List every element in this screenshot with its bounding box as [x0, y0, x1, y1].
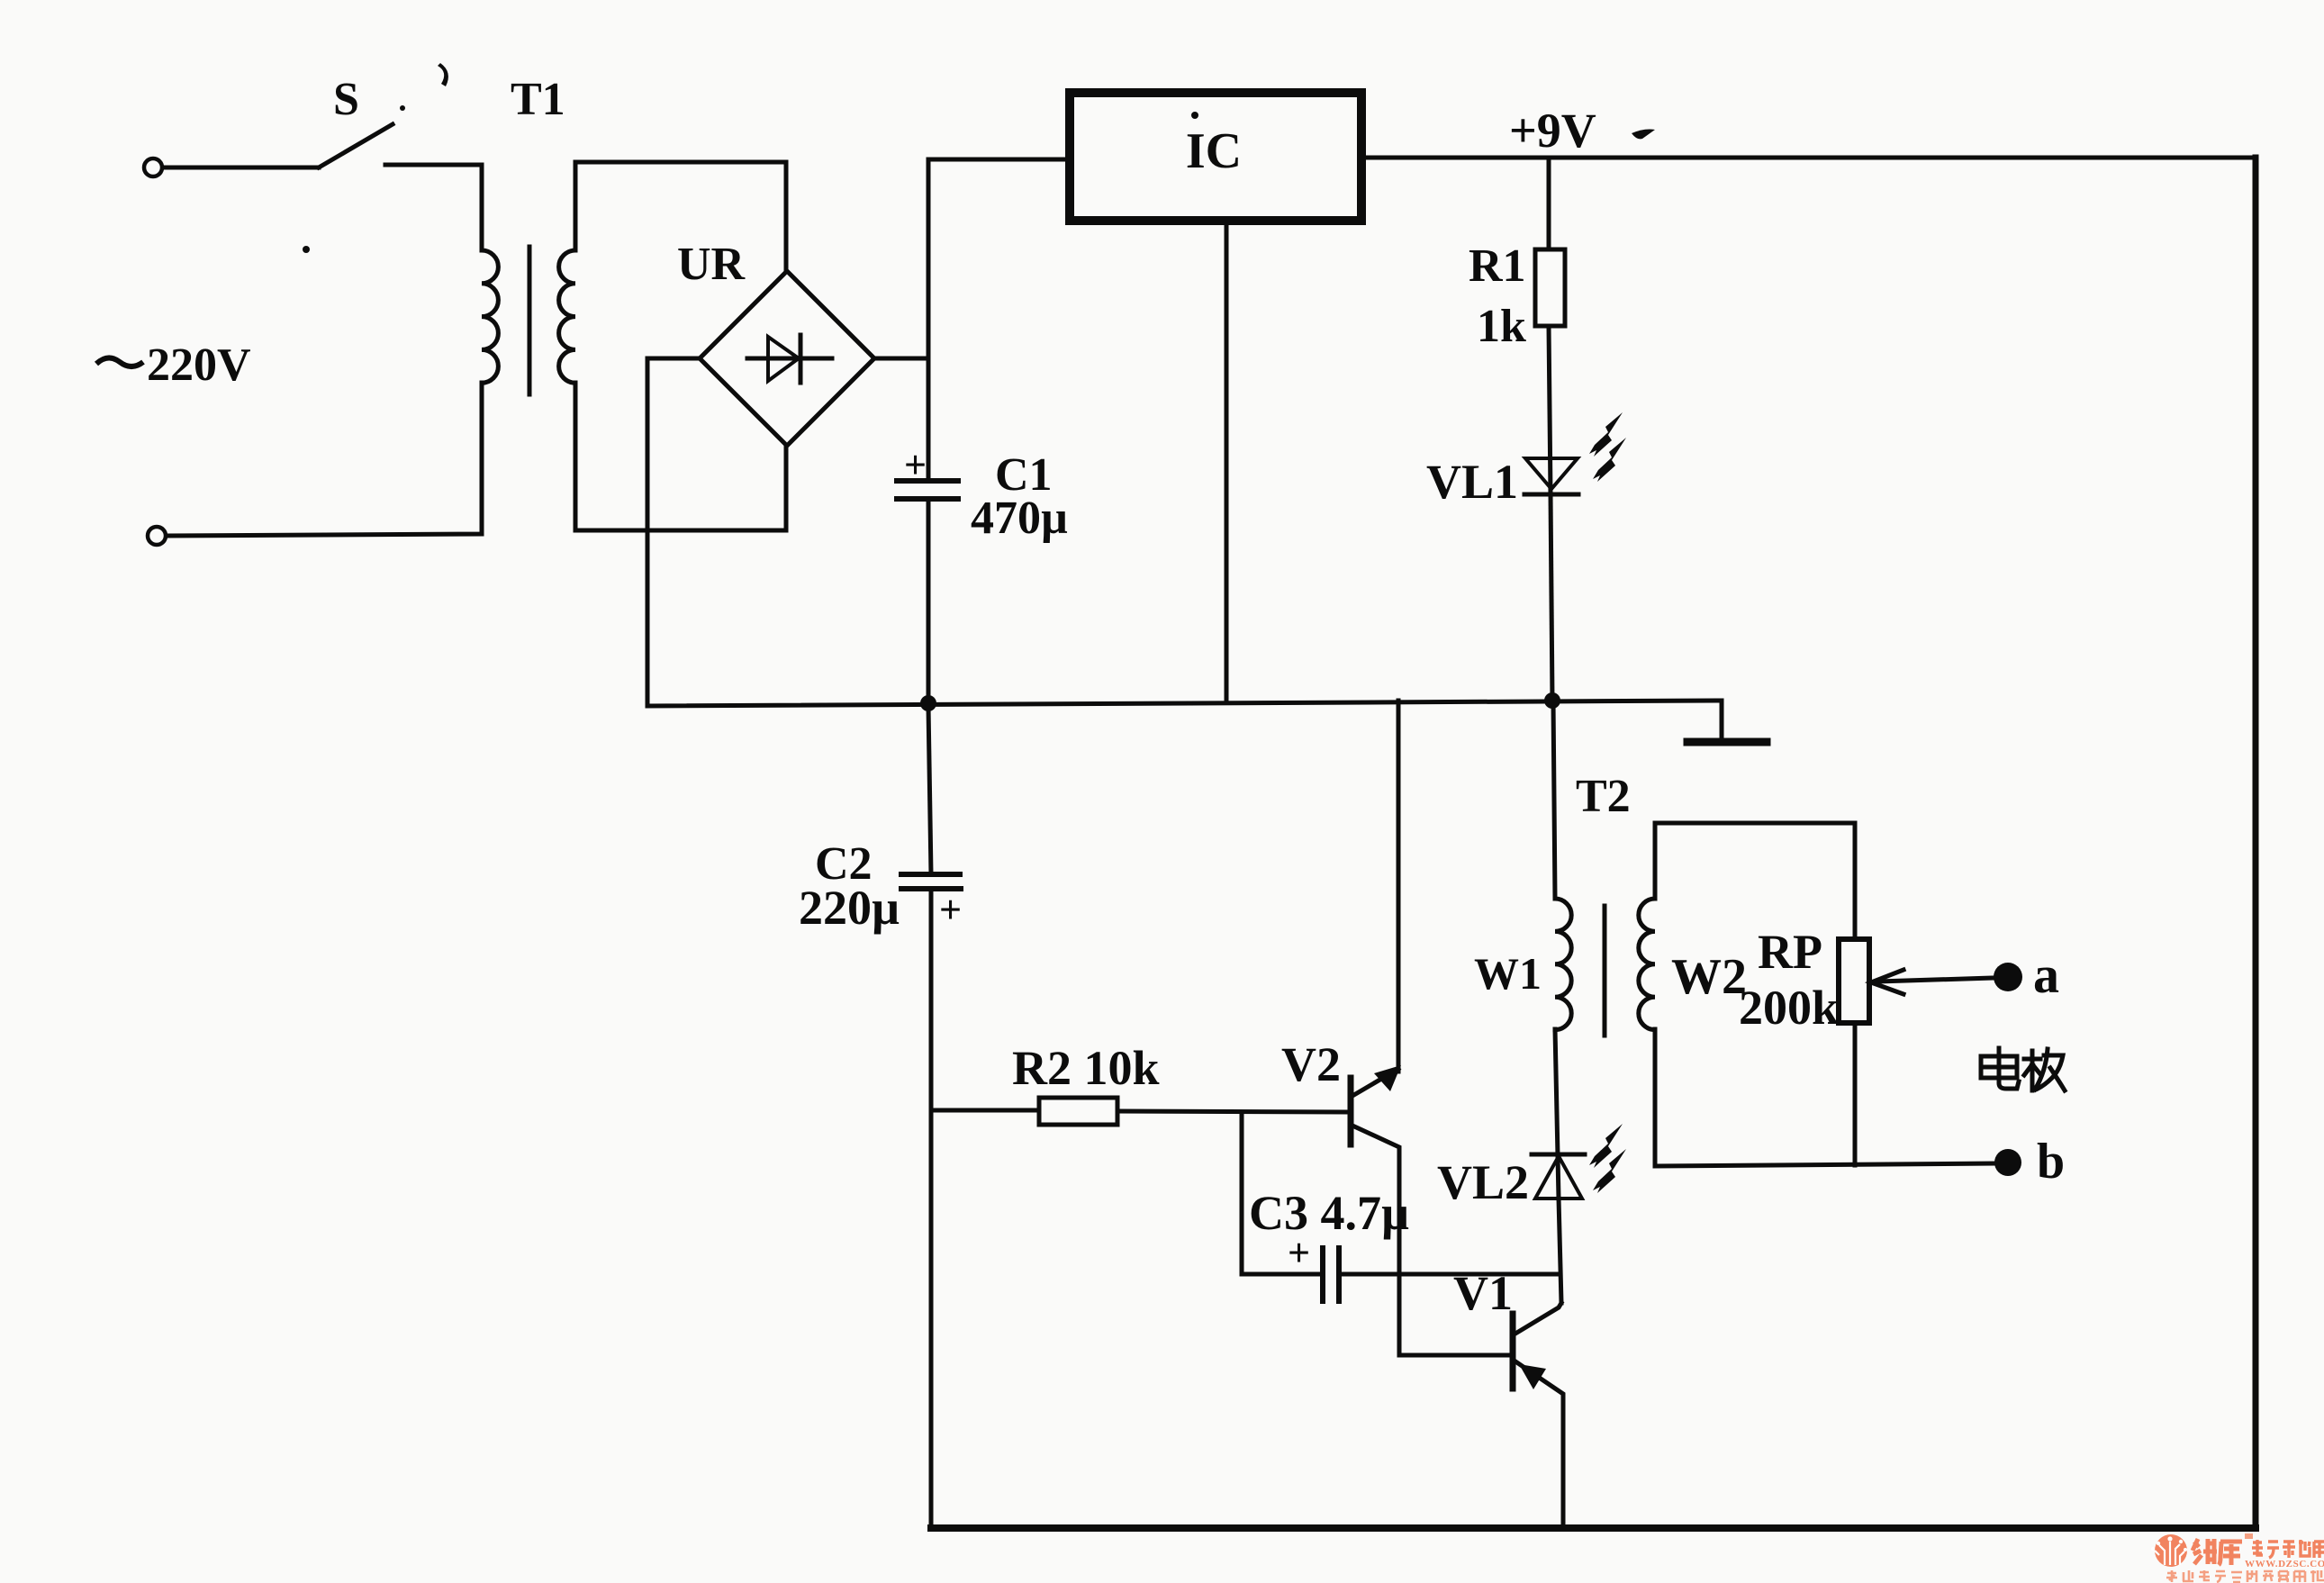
svg-text:+: + — [1288, 1231, 1310, 1275]
svg-text:VL2: VL2 — [1437, 1155, 1529, 1209]
svg-text:+: + — [939, 888, 962, 932]
svg-text:WWW.DZSC.COM: WWW.DZSC.COM — [2245, 1559, 2324, 1569]
svg-text:T1: T1 — [511, 74, 565, 125]
svg-text:T2: T2 — [1576, 771, 1631, 822]
svg-text:200k: 200k — [1739, 981, 1839, 1035]
svg-text:C3 4.7µ: C3 4.7µ — [1249, 1186, 1409, 1240]
svg-text:VL1: VL1 — [1426, 455, 1518, 509]
svg-text:220V: 220V — [147, 339, 251, 391]
svg-text:220µ: 220µ — [799, 881, 900, 935]
svg-text:V1: V1 — [1453, 1266, 1513, 1320]
svg-text:W1: W1 — [1474, 948, 1542, 999]
svg-text:a: a — [2033, 945, 2059, 1004]
svg-text:RP: RP — [1758, 925, 1822, 979]
svg-text:W2: W2 — [1671, 949, 1747, 1005]
svg-text:b: b — [2037, 1134, 2065, 1190]
svg-text:+: + — [904, 443, 927, 487]
svg-text:UR: UR — [677, 239, 746, 290]
svg-text:+9V: +9V — [1509, 104, 1596, 158]
svg-text:1k: 1k — [1477, 301, 1526, 352]
svg-text:R1: R1 — [1469, 240, 1526, 292]
svg-text:S: S — [333, 74, 359, 125]
svg-text:IC: IC — [1186, 123, 1242, 179]
svg-text:470µ: 470µ — [971, 493, 1068, 544]
svg-text:V2: V2 — [1281, 1037, 1341, 1091]
svg-text:R2 10k: R2 10k — [1012, 1041, 1160, 1095]
